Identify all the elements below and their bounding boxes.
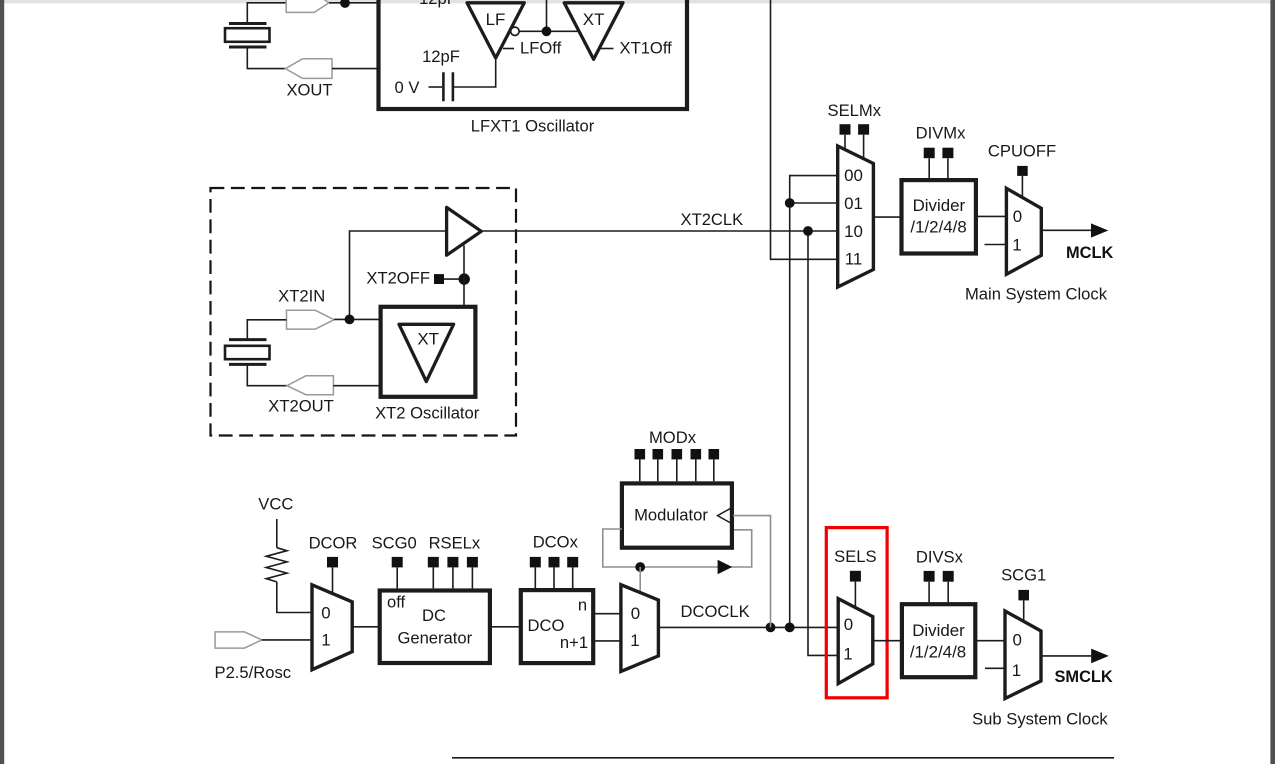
svg-text:LFXT1 Oscillator: LFXT1 Oscillator — [471, 117, 595, 136]
wire DCO tap n — [593, 613, 621, 615]
svg-text:12pF: 12pF — [419, 0, 457, 8]
wire branch to SELMx input 01 — [790, 202, 837, 204]
highlight box (red) around SELS — [826, 528, 887, 698]
junction dot on enable line — [459, 273, 470, 284]
svg-text:DIVSx: DIVSx — [916, 548, 964, 567]
terminal square SELS with stub — [850, 571, 861, 582]
wire modulator clock from DCOCLK (gray) — [733, 516, 771, 628]
svg-text:Modulator: Modulator — [634, 506, 708, 525]
svg-text:CPUOFF: CPUOFF — [988, 142, 1056, 161]
svg-text:DCOCLK: DCOCLK — [681, 602, 750, 621]
buffer XT2 output — [447, 207, 482, 255]
svg-text:0: 0 — [631, 604, 640, 623]
pin P2.5/Rosc — [215, 632, 262, 648]
svg-text:/1/2/4/8: /1/2/4/8 — [910, 218, 966, 237]
terminal squares DIVSx with stubs — [924, 571, 954, 602]
terminal square CPUOFF with stub — [1017, 166, 1027, 176]
svg-text:n: n — [578, 596, 587, 615]
svg-text:00: 00 — [844, 166, 863, 185]
svg-text:SMCLK: SMCLK — [1055, 668, 1113, 686]
svg-text:0 V: 0 V — [395, 78, 420, 97]
wire DCOCLK main run to SELS input 0 — [658, 626, 838, 628]
svg-text:0: 0 — [844, 615, 853, 634]
svg-text:1: 1 — [630, 631, 639, 650]
mux SCG1 (0/1) — [1005, 611, 1041, 699]
svg-text:1: 1 — [1012, 661, 1021, 680]
svg-text:SCG0: SCG0 — [372, 534, 417, 553]
bubble on LF output — [511, 27, 519, 35]
svg-text:DCOx: DCOx — [533, 533, 579, 552]
page right edge bar — [1270, 0, 1275, 764]
svg-text:XT2CLK: XT2CLK — [681, 210, 744, 229]
wire DCOCLK riser to SELMx input 00 — [790, 176, 837, 628]
pin XOUT — [286, 59, 333, 79]
arrowhead on feedback — [718, 560, 733, 575]
svg-text:10: 10 — [844, 222, 863, 241]
pin tick XT1Off — [600, 48, 614, 50]
svg-text:XT: XT — [417, 329, 439, 348]
terminal square SCG0 with stub — [392, 557, 403, 568]
box Divider /1/2/4/8 (MCLK) — [902, 180, 976, 253]
resistor Rosc — [266, 548, 287, 582]
svg-text:VCC: VCC — [258, 495, 293, 514]
svg-text:1: 1 — [1012, 235, 1021, 254]
wire enable vertical to XT2 box — [463, 245, 465, 306]
wire MCLK out — [1041, 229, 1091, 231]
svg-text:XT1Off: XT1Off — [620, 39, 673, 58]
mux CPUOFF (0/1) — [1006, 188, 1041, 274]
svg-text:XT2 Oscillator: XT2 Oscillator — [375, 404, 480, 423]
wire DCO tap n+1 — [593, 640, 621, 642]
wire select stub to tap mux — [639, 567, 641, 594]
junction dot — [785, 198, 795, 208]
wire buffer input riser — [350, 231, 447, 319]
svg-text:P2.5/Rosc: P2.5/Rosc — [215, 663, 292, 682]
wire DCOR stub — [332, 567, 334, 594]
svg-text:MODx: MODx — [649, 428, 697, 447]
svg-text:1: 1 — [321, 630, 330, 649]
wire XT2OFF to buffer enable — [444, 278, 464, 280]
svg-text:Sub System Clock: Sub System Clock — [972, 710, 1108, 729]
svg-text:12pF: 12pF — [422, 47, 460, 66]
wire DC generator to DCO — [490, 626, 521, 628]
mux DCOR (0/1) — [312, 585, 352, 670]
wire XIN pin to LFXT1 box — [329, 2, 377, 4]
wire SELMx out to divider — [873, 216, 901, 218]
junction dot SELMx riser tap — [785, 623, 795, 633]
wire crystal to XT2OUT — [247, 364, 287, 385]
wire modulator feedback loop (gray) — [603, 529, 752, 567]
svg-text:01: 01 — [844, 194, 863, 213]
wire DCOR mux out to DC generator — [352, 626, 380, 628]
wire XT2OUT pin to box — [333, 385, 380, 387]
wire LF bubble to XT input — [519, 30, 579, 32]
wire divider to SCG1 mux — [975, 640, 1005, 642]
svg-text:Divider: Divider — [913, 196, 966, 215]
svg-text:XOUT: XOUT — [286, 81, 332, 100]
wire XIN from crystal to pin — [247, 3, 286, 24]
wire P2.5 pin to mux input 1 — [262, 639, 312, 641]
buffer XT1 (inverter triangle) — [564, 3, 623, 60]
junction dot XT2IN node — [345, 315, 355, 325]
terminal squares SELMx with stubs — [840, 124, 870, 158]
svg-text:DCOR: DCOR — [309, 534, 358, 553]
buffer XT (inside XT2 box) — [399, 324, 454, 381]
terminal squares MODx with stubs — [635, 449, 720, 481]
wire LFXT1CLK to SELMx input 11 — [771, 0, 837, 259]
box LFXT1 oscillator (top cropped) — [379, 0, 688, 109]
svg-text:Main System Clock: Main System Clock — [965, 285, 1108, 304]
wire XT2IN pin to box — [334, 318, 381, 320]
crystal X2 (XT2) — [225, 340, 270, 365]
crystal X1 (LFXT1 watch crystal) — [225, 24, 270, 48]
buffer LF (inverter triangle) — [467, 3, 524, 58]
wire XOUT pin to LFXT1 box — [332, 68, 377, 70]
svg-text:0: 0 — [321, 604, 330, 623]
wire internal node to LF/XT input — [546, 0, 548, 31]
page top edge band — [4, 0, 1270, 3]
rule line (table edge below figure) — [452, 757, 1114, 759]
terminal squares RSELx with stubs — [428, 557, 478, 589]
svg-text:1: 1 — [843, 644, 852, 663]
svg-text:/1/2/4/8: /1/2/4/8 — [910, 643, 966, 662]
svg-text:XT2OFF: XT2OFF — [366, 269, 430, 288]
clock input triangle marker — [718, 507, 733, 524]
svg-text:Generator: Generator — [397, 628, 472, 647]
wire cap to LF output apex — [454, 58, 496, 88]
wire resistor to DCOR mux input 0 — [277, 582, 312, 613]
box DC Generator — [380, 591, 490, 664]
pin tick LFOff — [503, 48, 514, 50]
svg-text:0: 0 — [1013, 207, 1022, 226]
svg-text:DIVMx: DIVMx — [916, 124, 966, 143]
wire crystal to XOUT pin — [247, 47, 285, 69]
svg-text:0: 0 — [1012, 631, 1021, 650]
wire SELS out to divider — [873, 640, 902, 642]
svg-text:DCO: DCO — [528, 616, 565, 635]
pin XT2IN — [287, 310, 335, 329]
svg-text:Divider: Divider — [912, 621, 965, 640]
wire divider to CPUOFF mux — [976, 215, 1007, 217]
svg-text:DC: DC — [422, 606, 446, 625]
terminal squares DIVMx with stubs — [924, 148, 954, 178]
svg-text:n+1: n+1 — [560, 633, 588, 652]
mux SELS (0/1) — [838, 599, 873, 684]
junction dot on XT2CLK — [803, 226, 813, 236]
svg-text:XT: XT — [583, 10, 605, 29]
svg-text:XT2OUT: XT2OUT — [268, 397, 333, 416]
arrowhead SMCLK — [1091, 649, 1109, 664]
junction node XIN — [340, 0, 350, 8]
wire crystal to XT2IN — [247, 320, 286, 340]
mux SELMx (00/01/10/11) — [838, 146, 874, 287]
wire VCC down — [276, 519, 278, 548]
svg-text:SELS: SELS — [834, 547, 876, 566]
junction dot feedback to tap-mux select — [635, 562, 645, 572]
mux DCO tap select (0/1) — [621, 585, 659, 672]
terminal squares DCOx with stubs — [530, 557, 578, 588]
svg-text:LF: LF — [486, 10, 506, 29]
terminal square SCG1 with stub — [1018, 590, 1029, 601]
svg-text:RSELx: RSELx — [429, 534, 481, 553]
page left edge bar — [0, 0, 4, 764]
dashed boundary box XT2 optional module — [211, 188, 517, 436]
wire XT2CLK to SELMx input 10 — [481, 230, 837, 232]
box DCO — [521, 590, 593, 663]
junction dot — [542, 26, 552, 36]
svg-text:XT2IN: XT2IN — [278, 287, 325, 306]
wire XT2CLK branch down to SELS input 1 — [808, 231, 838, 655]
svg-text:LFOff: LFOff — [520, 39, 562, 58]
svg-text:11: 11 — [845, 249, 863, 268]
svg-text:SCG1: SCG1 — [1001, 566, 1046, 585]
box XT2 oscillator — [381, 307, 476, 397]
terminal square DCOR — [327, 557, 338, 568]
stub input 1 (off) — [985, 667, 1005, 669]
terminal square XT2OFF — [434, 274, 444, 284]
pin XT2OUT — [287, 376, 333, 395]
svg-text:MCLK: MCLK — [1066, 244, 1114, 262]
stub input 1 (off) — [985, 244, 1007, 246]
wire SMCLK out — [1041, 655, 1091, 657]
svg-text:off: off — [387, 593, 406, 612]
box Divider /1/2/4/8 (SMCLK) — [902, 604, 975, 677]
arrowhead MCLK — [1091, 223, 1108, 237]
pin XIN (cropped at top) — [286, 0, 329, 12]
junction dot modulator clock tap — [766, 623, 776, 633]
box Modulator — [622, 483, 732, 547]
capacitor C2 12pF — [429, 72, 453, 101]
svg-text:SELMx: SELMx — [828, 101, 882, 120]
